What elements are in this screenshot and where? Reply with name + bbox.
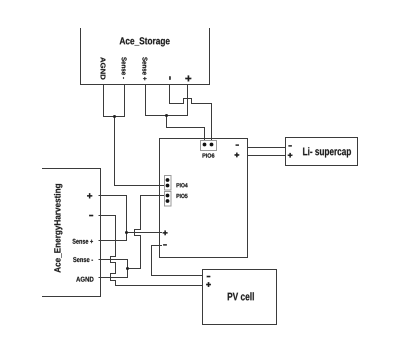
wire storage Sense+ stub: [145, 85, 147, 116]
block PV cell: [203, 270, 277, 325]
wire node right: [128, 268, 141, 270]
pin label + (EH): [87, 195, 92, 196]
wire EH Sense+ right: [99, 240, 127, 242]
block Ace_EnergyHarvesting (open left): [43, 169, 101, 297]
label AGND: [101, 57, 106, 79]
label Sense +: [73, 239, 94, 244]
label AGND: [76, 277, 93, 282]
block U1 main board: [160, 139, 248, 258]
label Ace_Storage: [120, 37, 170, 46]
wire - run with hop to P106 pin2: [170, 99, 212, 145]
pin label + (board left): [163, 232, 168, 233]
pin label - (board left): [163, 244, 167, 245]
pin label - (EH): [89, 215, 93, 216]
wire EH Sense- right: [99, 259, 128, 261]
wire storage - stub: [169, 85, 171, 104]
block Ace_Storage (open top): [81, 29, 210, 85]
wire node down to PIO4: [115, 117, 168, 186]
pin label + (board right): [235, 154, 240, 155]
wire - down with hops to PV +: [111, 216, 203, 286]
label PIO6: [203, 153, 215, 157]
wire Sense+/+ tie bar: [146, 115, 188, 117]
node +/Sense+ EH junction: [125, 231, 128, 234]
wire storage Sense- stub: [124, 85, 126, 117]
pin label + (supercap): [288, 155, 293, 156]
pin label - (PV): [207, 276, 211, 277]
label PIO4: [177, 183, 188, 187]
label PV cell: [228, 292, 254, 300]
wire + into board: [127, 232, 162, 234]
connector PIO4: [165, 176, 172, 191]
wire board - out: [152, 245, 162, 247]
wire EH - right: [99, 215, 116, 217]
node AGND/Sense- junction: [113, 115, 116, 118]
wire storage + stub: [187, 85, 189, 116]
label Sense -: [73, 257, 93, 262]
pin label - (supercap): [289, 145, 292, 146]
wire storage AGND stub: [103, 85, 105, 117]
wire up with hop to PIO5: [135, 196, 168, 269]
wire down to PV -: [152, 246, 203, 276]
wire Sense- down to node: [127, 260, 129, 278]
pin label + (storage): [185, 78, 191, 79]
connector P106: [201, 141, 217, 151]
pin label + (PV): [206, 284, 211, 285]
pin label - (board right): [236, 145, 239, 146]
wire EH + right: [99, 195, 127, 197]
pin label - (storage): [169, 76, 170, 79]
wire EH AGND right: [99, 277, 128, 279]
node Sense+/+ junction: [165, 114, 168, 117]
block Li-supercap: [286, 138, 358, 166]
wire AGND/Sense- tie bar: [104, 116, 125, 118]
wire board to supercap +: [248, 155, 286, 157]
label PIO5: [177, 194, 188, 198]
node Sense-/AGND EH junction: [126, 267, 129, 270]
label Sense -: [122, 57, 127, 79]
label Ace_EnergyHarvesting: [54, 184, 62, 273]
label Sense +: [142, 57, 147, 80]
wire + down to Sense+: [126, 196, 128, 241]
wire board to supercap -: [248, 147, 286, 149]
label Li- supercap: [303, 147, 351, 157]
wire node down to P106 pin1: [167, 116, 205, 145]
connector PIO5: [165, 192, 172, 207]
